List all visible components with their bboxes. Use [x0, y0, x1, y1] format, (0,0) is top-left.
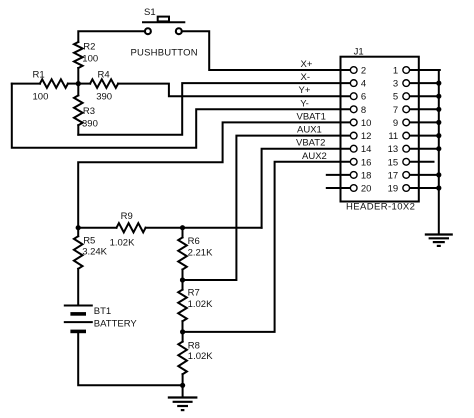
wire pin 15 stub [410, 161, 434, 163]
svg-text:X-: X- [301, 72, 311, 83]
node R6 top / R9 right [180, 225, 185, 230]
wire VBAT2 row (pin 14) to R9 right [262, 149, 351, 228]
pin 3 circle [403, 80, 410, 87]
connector J1 box [341, 57, 419, 202]
svg-text:1.02K: 1.02K [188, 299, 213, 310]
battery BT1 [64, 306, 138, 332]
svg-text:R2: R2 [83, 42, 95, 53]
svg-text:5: 5 [393, 92, 398, 103]
pin 7 circle [403, 106, 410, 113]
node bus pin 17 [436, 172, 441, 177]
ground at bus bottom [425, 235, 453, 246]
wire R1 left to Y- row (pin 8) [12, 84, 350, 148]
svg-text:2.21K: 2.21K [188, 248, 213, 259]
pin 1 circle [403, 67, 410, 74]
ground under R8 [168, 385, 198, 410]
pin 4 circle [350, 80, 357, 87]
wire pin 20 stub [327, 187, 350, 189]
wire pin 17 to ground bus [410, 174, 440, 176]
svg-text:100: 100 [82, 53, 98, 64]
wire pin 5 to ground bus [410, 95, 440, 97]
pin 5 circle [403, 93, 410, 100]
node bus pin 13 [436, 146, 441, 151]
svg-text:15: 15 [388, 157, 399, 168]
wire pin 3 to ground bus [410, 82, 440, 84]
svg-text:17: 17 [388, 170, 399, 181]
node bus pin 11 [436, 133, 441, 138]
pin 19 circle [403, 185, 410, 192]
node R7/R8/AUX2 [180, 329, 185, 334]
node bus pin 7 [436, 107, 441, 112]
svg-text:1.02K: 1.02K [188, 351, 213, 362]
resistor R7 [178, 280, 213, 332]
wire S1 right terminal to X+ row (pin 2) [182, 31, 350, 70]
svg-text:7: 7 [393, 105, 398, 116]
node junction R1/R2/R3/R4 [76, 81, 81, 86]
svg-text:13: 13 [388, 144, 399, 155]
resistor R1 [12, 69, 79, 102]
svg-text:X+: X+ [301, 59, 313, 70]
svg-text:9: 9 [393, 118, 398, 129]
resistor R4 [78, 69, 118, 102]
node bus pin 5 [436, 94, 441, 99]
node bus pin 19 [436, 185, 441, 190]
svg-text:16: 16 [361, 157, 372, 168]
svg-text:390: 390 [96, 91, 112, 102]
svg-text:10: 10 [361, 118, 372, 129]
svg-text:R6: R6 [188, 236, 200, 247]
pin 12 circle [350, 132, 357, 139]
svg-text:11: 11 [388, 131, 398, 142]
svg-text:HEADER-10X2: HEADER-10X2 [346, 202, 415, 213]
pin 13 circle [403, 145, 410, 152]
svg-text:R4: R4 [98, 69, 110, 80]
svg-text:3.24K: 3.24K [82, 247, 107, 258]
wire VBAT1 row (pin 10) to R5/R9 node [78, 122, 350, 227]
resistor R6 [178, 228, 213, 280]
wire pin 18 stub [327, 174, 350, 176]
svg-text:R8: R8 [188, 341, 200, 352]
ground bus vertical [438, 70, 440, 235]
svg-text:390: 390 [82, 119, 98, 130]
pin 15 circle [403, 158, 410, 165]
svg-text:100: 100 [33, 91, 49, 102]
svg-text:J1: J1 [354, 47, 364, 58]
pin 20 circle [350, 185, 357, 192]
wire pin 7 to ground bus [410, 108, 440, 110]
resistor R2 [74, 42, 98, 84]
pin 14 circle [350, 145, 357, 152]
svg-text:12: 12 [361, 131, 372, 142]
wire pin 11 to ground bus [410, 135, 440, 137]
svg-text:R9: R9 [121, 211, 133, 222]
pin 9 circle [403, 119, 410, 126]
wire pin 9 to ground bus [410, 121, 440, 123]
wire battery bottom to R8 bottom node [78, 333, 182, 385]
wire AUX2 row (pin 16) to R7 bottom [183, 162, 351, 332]
pin 6 circle [350, 93, 357, 100]
node bus pin 3 [436, 81, 441, 86]
pushbutton S1 [143, 17, 184, 35]
pin 18 circle [350, 172, 357, 179]
svg-text:20: 20 [361, 184, 372, 195]
svg-text:8: 8 [361, 105, 366, 116]
node bus pin 9 [436, 120, 441, 125]
svg-text:2: 2 [361, 66, 366, 77]
svg-text:18: 18 [361, 170, 372, 181]
node R5/R9/VBAT1 [76, 225, 81, 230]
svg-text:19: 19 [388, 184, 399, 195]
svg-text:6: 6 [361, 92, 366, 103]
wire pin 1 to ground bus [410, 69, 440, 71]
node R6/R7/AUX1 [180, 277, 185, 282]
resistor R8 [178, 332, 213, 385]
wire pin 13 to ground bus [410, 148, 440, 150]
svg-text:R1: R1 [33, 69, 45, 80]
svg-text:PUSHBUTTON: PUSHBUTTON [131, 47, 198, 58]
wire R4 to Y+ row (pin 6) [118, 84, 350, 97]
pin 11 circle [403, 132, 410, 139]
wire S1 left terminal to R2 top [78, 31, 144, 42]
svg-text:R3: R3 [83, 106, 95, 117]
pin 10 circle [350, 119, 357, 126]
wire R3 bottom to X- row (pin 4) [78, 83, 350, 135]
wire pin 19 to ground bus [410, 187, 440, 189]
svg-text:BT1: BT1 [94, 306, 111, 317]
svg-text:Y+: Y+ [299, 85, 311, 96]
pin 17 circle [403, 172, 410, 179]
resistor R9 [78, 211, 261, 249]
svg-text:3: 3 [393, 79, 398, 90]
svg-text:R7: R7 [188, 288, 200, 299]
svg-text:VBAT2: VBAT2 [296, 138, 325, 149]
svg-text:R5: R5 [83, 236, 95, 247]
svg-text:AUX2: AUX2 [302, 151, 327, 162]
svg-text:1.02K: 1.02K [110, 238, 135, 249]
resistor R3 [74, 84, 98, 135]
svg-text:BATTERY: BATTERY [94, 319, 138, 330]
resistor R5 [74, 228, 108, 306]
pin 8 circle [350, 106, 357, 113]
wire AUX1 row (pin 12) to R6 bottom [183, 136, 351, 280]
svg-text:1: 1 [393, 66, 398, 77]
svg-text:Y-: Y- [300, 98, 309, 109]
svg-text:VBAT1: VBAT1 [297, 111, 326, 122]
pin 16 circle [350, 158, 357, 165]
pin 2 circle [350, 67, 357, 74]
svg-text:S1: S1 [144, 7, 156, 18]
node R8 bottom / battery return [180, 383, 185, 388]
svg-text:AUX1: AUX1 [297, 125, 322, 136]
svg-text:14: 14 [361, 144, 372, 155]
svg-text:4: 4 [361, 79, 366, 90]
